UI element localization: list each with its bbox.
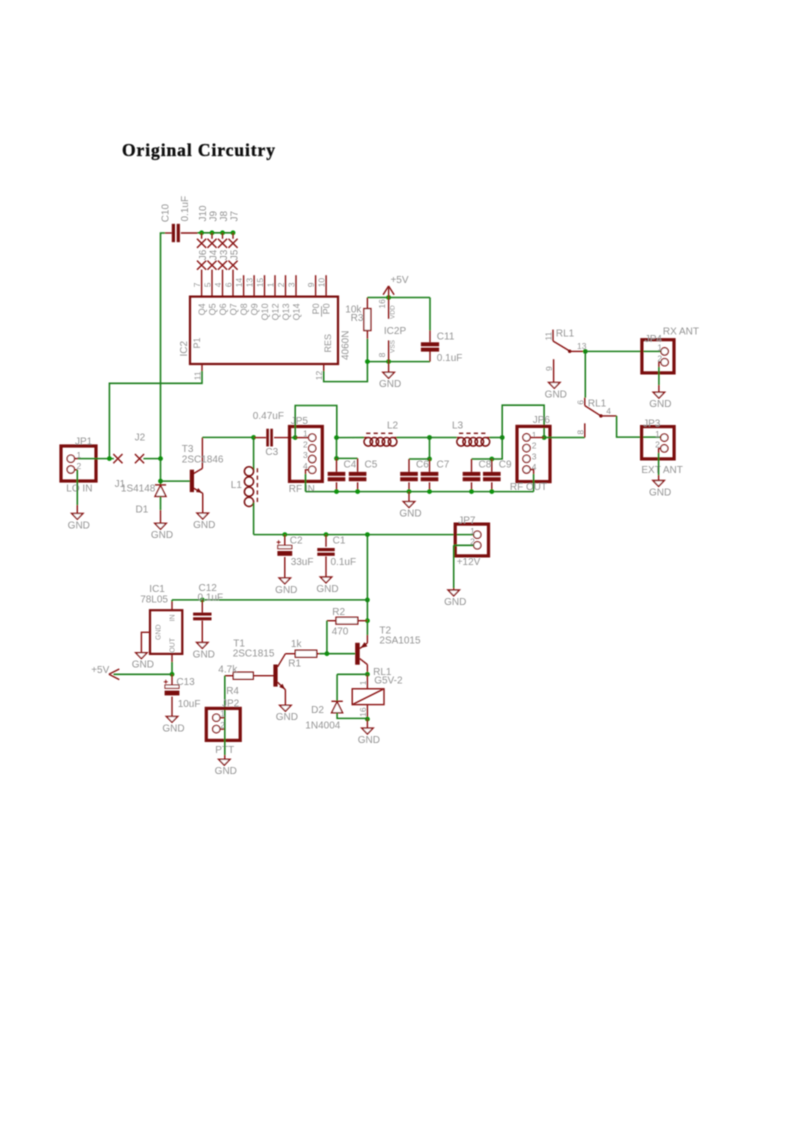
svg-text:C11: C11 xyxy=(437,332,455,343)
svg-text:J4: J4 xyxy=(208,249,219,260)
svg-text:C4: C4 xyxy=(344,460,357,471)
svg-text:1: 1 xyxy=(470,526,475,536)
svg-text:IC2P: IC2P xyxy=(384,326,407,337)
svg-text:GND: GND xyxy=(649,487,671,498)
svg-text:L3: L3 xyxy=(452,421,464,432)
svg-text:RL1: RL1 xyxy=(556,329,575,340)
svg-text:GND: GND xyxy=(155,624,162,640)
svg-text:Q4: Q4 xyxy=(197,303,207,315)
svg-text:GND: GND xyxy=(276,712,298,723)
svg-text:C3: C3 xyxy=(265,447,278,458)
svg-text:GND: GND xyxy=(151,530,173,541)
svg-text:L1: L1 xyxy=(231,480,243,491)
svg-text:1: 1 xyxy=(265,282,275,287)
svg-text:13: 13 xyxy=(245,278,255,288)
svg-text:LO IN: LO IN xyxy=(66,483,92,494)
svg-text:GND: GND xyxy=(379,379,401,390)
svg-text:J2: J2 xyxy=(135,433,146,444)
svg-text:0.1uF: 0.1uF xyxy=(180,196,191,222)
svg-text:0.47uF: 0.47uF xyxy=(253,411,284,422)
svg-text:C9: C9 xyxy=(499,460,512,471)
svg-text:C13: C13 xyxy=(176,677,195,688)
svg-text:C5: C5 xyxy=(365,460,378,471)
svg-text:VSS: VSS xyxy=(390,339,397,353)
svg-text:C6: C6 xyxy=(416,460,429,471)
svg-text:12: 12 xyxy=(314,370,324,380)
svg-text:JP7: JP7 xyxy=(458,516,476,527)
svg-text:P0: P0 xyxy=(311,303,321,314)
svg-text:GND: GND xyxy=(193,520,215,531)
svg-text:GND: GND xyxy=(215,766,237,777)
svg-text:GND: GND xyxy=(545,389,567,400)
svg-text:16: 16 xyxy=(377,299,387,309)
svg-text:2: 2 xyxy=(276,282,286,287)
svg-text:C2: C2 xyxy=(290,536,303,547)
svg-text:J3: J3 xyxy=(219,249,230,260)
svg-text:2SA1015: 2SA1015 xyxy=(379,636,421,647)
svg-text:OUT: OUT xyxy=(170,637,177,653)
svg-text:Q10: Q10 xyxy=(260,303,270,320)
svg-text:C8: C8 xyxy=(479,460,492,471)
svg-text:T2: T2 xyxy=(379,625,391,636)
svg-text:Q13: Q13 xyxy=(281,303,291,320)
svg-text:J7: J7 xyxy=(229,211,240,222)
svg-text:2SC1815: 2SC1815 xyxy=(233,649,275,660)
svg-text:3: 3 xyxy=(303,450,308,460)
svg-text:J8: J8 xyxy=(219,211,230,222)
svg-text:GND: GND xyxy=(444,597,466,608)
svg-text:1S4148: 1S4148 xyxy=(121,484,156,495)
svg-text:RX ANT: RX ANT xyxy=(663,326,699,337)
svg-text:4060N: 4060N xyxy=(341,331,352,360)
svg-text:1: 1 xyxy=(220,708,225,718)
svg-text:J9: J9 xyxy=(208,211,219,222)
svg-text:10uF: 10uF xyxy=(178,699,201,710)
svg-text:Q5: Q5 xyxy=(207,303,217,315)
svg-text:2: 2 xyxy=(532,441,537,451)
svg-text:R4: R4 xyxy=(226,686,239,697)
svg-text:Original Circuitry: Original Circuitry xyxy=(122,140,275,160)
svg-text:R2: R2 xyxy=(332,607,345,618)
svg-text:0.1uF: 0.1uF xyxy=(437,353,463,364)
svg-text:GND: GND xyxy=(132,660,154,671)
svg-text:5: 5 xyxy=(202,282,212,287)
svg-text:0.1uF: 0.1uF xyxy=(331,557,357,568)
svg-text:470: 470 xyxy=(332,626,349,637)
svg-text:1: 1 xyxy=(532,430,537,440)
svg-text:4: 4 xyxy=(213,282,223,287)
svg-text:GND: GND xyxy=(649,399,671,410)
svg-text:15: 15 xyxy=(255,278,265,288)
svg-text:2SC1846: 2SC1846 xyxy=(182,454,224,465)
svg-text:GND: GND xyxy=(275,585,297,596)
svg-text:+5V: +5V xyxy=(390,275,408,286)
svg-text:GND: GND xyxy=(162,723,184,734)
svg-text:3: 3 xyxy=(532,451,537,461)
svg-text:3: 3 xyxy=(286,282,296,287)
svg-text:78L05: 78L05 xyxy=(140,594,168,605)
svg-text:4.7k: 4.7k xyxy=(218,664,238,675)
svg-text:+5V: +5V xyxy=(91,665,109,676)
svg-text:GND: GND xyxy=(358,735,380,746)
svg-text:+12V: +12V xyxy=(457,557,481,568)
svg-text:JP1: JP1 xyxy=(75,436,93,447)
svg-text:VDD: VDD xyxy=(390,305,397,319)
svg-text:IN: IN xyxy=(170,614,177,621)
svg-text:D2: D2 xyxy=(311,705,324,716)
svg-text:IC2: IC2 xyxy=(179,341,190,357)
svg-text:GND: GND xyxy=(399,509,421,520)
svg-text:RF OUT: RF OUT xyxy=(510,482,547,493)
svg-text:Q6: Q6 xyxy=(218,303,228,315)
svg-text:P0: P0 xyxy=(322,303,332,314)
svg-text:EXT ANT: EXT ANT xyxy=(641,465,683,476)
svg-text:6: 6 xyxy=(223,282,233,287)
svg-text:1: 1 xyxy=(655,429,660,439)
svg-text:11: 11 xyxy=(192,371,202,380)
svg-text:GND: GND xyxy=(193,649,215,660)
svg-text:RES: RES xyxy=(323,334,333,353)
svg-text:P1: P1 xyxy=(192,337,202,348)
svg-text:G5V-2: G5V-2 xyxy=(374,675,403,686)
svg-text:10: 10 xyxy=(317,278,327,288)
svg-text:8: 8 xyxy=(575,430,585,435)
svg-text:6: 6 xyxy=(575,400,585,405)
svg-text:9: 9 xyxy=(544,366,554,371)
svg-text:JP2: JP2 xyxy=(222,699,240,710)
svg-text:GND: GND xyxy=(68,520,90,531)
svg-text:GND: GND xyxy=(316,584,338,595)
svg-text:1N4004: 1N4004 xyxy=(305,720,340,731)
svg-text:C10: C10 xyxy=(161,204,172,223)
svg-text:2: 2 xyxy=(303,439,308,449)
svg-text:16: 16 xyxy=(358,707,368,717)
svg-text:4: 4 xyxy=(606,406,611,416)
svg-text:0.1uF: 0.1uF xyxy=(198,593,224,604)
svg-text:Q8: Q8 xyxy=(239,303,249,315)
svg-text:C7: C7 xyxy=(437,460,450,471)
svg-text:8: 8 xyxy=(377,352,387,357)
svg-text:D1: D1 xyxy=(136,504,149,515)
svg-text:R1: R1 xyxy=(288,658,301,669)
svg-text:Q12: Q12 xyxy=(270,303,280,320)
svg-text:J5: J5 xyxy=(229,249,240,260)
svg-text:Q9: Q9 xyxy=(250,303,260,315)
svg-text:C1: C1 xyxy=(333,535,346,546)
svg-text:1: 1 xyxy=(358,680,368,685)
svg-text:Q7: Q7 xyxy=(228,303,238,315)
svg-text:RL1: RL1 xyxy=(588,398,607,409)
svg-text:JP5: JP5 xyxy=(291,416,309,427)
svg-text:33uF: 33uF xyxy=(291,557,314,568)
svg-text:14: 14 xyxy=(234,278,244,288)
svg-text:J6: J6 xyxy=(198,249,209,260)
svg-text:JP4: JP4 xyxy=(645,334,663,345)
svg-text:JP6: JP6 xyxy=(533,415,551,426)
svg-text:7: 7 xyxy=(192,282,202,287)
svg-text:1k: 1k xyxy=(291,639,303,650)
svg-text:T3: T3 xyxy=(182,444,194,455)
svg-text:9: 9 xyxy=(306,282,316,287)
svg-text:R3: R3 xyxy=(351,313,364,324)
svg-text:JP3: JP3 xyxy=(643,419,661,430)
svg-text:RF IN: RF IN xyxy=(289,484,315,495)
svg-text:L2: L2 xyxy=(387,421,399,432)
svg-text:J10: J10 xyxy=(198,205,209,222)
svg-text:Q14: Q14 xyxy=(291,303,301,320)
svg-text:11: 11 xyxy=(544,332,554,341)
